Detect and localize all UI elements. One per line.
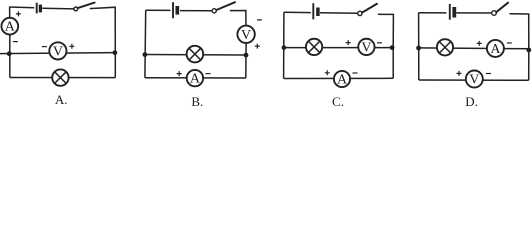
node B left junction <box>143 52 148 57</box>
svg-text:V: V <box>53 45 63 60</box>
lamp L2 circle <box>187 46 204 63</box>
wire C middle (lamp + voltmeter branch) <box>284 47 392 49</box>
wire B middle (lamp branch) <box>145 54 246 57</box>
ammeter A4 minus label <box>507 42 512 44</box>
switch S-D lever <box>496 3 508 13</box>
wire C right side lower <box>392 48 394 79</box>
wire A right side lower <box>114 53 116 78</box>
node D left junction <box>416 46 421 51</box>
wire A battery to switch <box>42 7 74 10</box>
wire B switch to top-right corner <box>230 11 246 26</box>
lamp L4 circle <box>437 39 453 55</box>
battery BT-D long plate <box>449 4 451 20</box>
wire D left side <box>418 13 420 80</box>
wire D bottom <box>419 79 529 81</box>
battery BT-D short thick plate <box>452 7 456 18</box>
voltmeter V1 plus label <box>69 44 74 49</box>
voltmeter V2 plus label <box>255 44 260 49</box>
wire B bottom <box>145 77 246 79</box>
wire B battery to switch <box>180 10 212 12</box>
node B right junction <box>244 53 249 58</box>
battery BT-B long plate <box>172 2 174 18</box>
wire D middle (lamp + ammeter branch) <box>419 47 529 50</box>
node C right junction <box>390 45 395 50</box>
switch S-B lever <box>216 2 235 10</box>
node A left junction <box>7 51 12 56</box>
wire B top-left segment <box>146 9 171 11</box>
ammeter A4 circle <box>487 40 504 57</box>
svg-text:A: A <box>337 73 348 88</box>
wire A bottom <box>10 77 116 79</box>
switch S-B pivot <box>212 9 216 13</box>
svg-text:A: A <box>490 42 501 57</box>
ammeter A3 minus label <box>353 72 358 74</box>
svg-text:V: V <box>361 40 371 55</box>
node D right junction <box>526 48 531 53</box>
wire D top-left segment <box>419 12 447 14</box>
svg-text:V: V <box>469 73 479 88</box>
ammeter A1 circle <box>1 18 18 35</box>
wire C top-left segment <box>284 11 311 13</box>
svg-text:C.: C. <box>332 94 344 109</box>
switch S-D pivot <box>492 11 497 16</box>
wire C left side <box>283 12 285 78</box>
node A right junction <box>113 50 118 55</box>
wire B right side lower <box>245 43 247 78</box>
lamp L2 cross <box>189 48 201 60</box>
svg-text:A: A <box>190 72 201 87</box>
ammeter A2 plus label <box>177 71 182 76</box>
wire A left side upper <box>9 7 11 19</box>
voltmeter V2 circle <box>237 26 254 43</box>
wire A left side lower <box>9 34 11 77</box>
ammeter A2 minus label <box>206 73 211 75</box>
wire A switch to top-right corner <box>90 7 116 52</box>
battery BT-A long plate <box>36 3 38 14</box>
switch S-C pivot <box>358 11 362 15</box>
wire B left side <box>144 10 147 77</box>
wire A middle (voltmeter branch) <box>0 53 115 54</box>
lamp L4 cross <box>439 42 451 54</box>
switch S-C lever <box>362 4 377 13</box>
lamp L3 cross <box>308 41 320 53</box>
wire D battery to switch <box>456 12 492 14</box>
battery BT-B short thick plate <box>175 6 179 15</box>
voltmeter V3 plus label <box>346 40 351 45</box>
ammeter A1 plus label <box>16 11 21 16</box>
lamp L3 circle <box>306 39 322 55</box>
voltmeter V1 circle <box>49 42 66 59</box>
ammeter A3 plus label <box>325 70 330 75</box>
svg-text:V: V <box>241 28 251 43</box>
voltmeter V3 minus label <box>377 42 382 44</box>
battery BT-C short thick plate <box>316 8 320 17</box>
switch S-A lever <box>78 3 95 9</box>
ammeter A3 circle <box>334 71 350 87</box>
wire C battery to switch <box>320 12 358 15</box>
svg-text:A: A <box>5 20 16 35</box>
svg-text:D.: D. <box>465 94 478 109</box>
wire D right side lower <box>528 49 530 81</box>
ammeter A2 circle <box>187 70 203 86</box>
voltmeter V1 minus label <box>42 46 47 48</box>
svg-text:B.: B. <box>191 94 203 109</box>
battery BT-A short thick plate <box>39 5 42 13</box>
lamp L1 cross <box>55 72 67 84</box>
voltmeter V4 minus label <box>486 73 491 75</box>
voltmeter V4 plus label <box>457 71 462 76</box>
wire C switch to top-right corner <box>378 14 394 47</box>
wire A top-left segment <box>9 6 34 9</box>
switch S-A pivot <box>74 7 78 11</box>
node C left junction <box>282 45 287 50</box>
ammeter A4 plus label <box>477 41 482 46</box>
svg-text:A.: A. <box>55 92 68 107</box>
ammeter A1 minus label <box>13 41 18 43</box>
lamp L1 circle <box>52 69 68 85</box>
wire C bottom <box>284 77 394 79</box>
voltmeter V4 circle <box>466 71 483 88</box>
battery BT-C long plate <box>312 3 314 19</box>
voltmeter V2 minus label <box>257 19 262 21</box>
wire D switch to top-right corner <box>510 14 529 49</box>
voltmeter V3 circle <box>358 39 374 55</box>
